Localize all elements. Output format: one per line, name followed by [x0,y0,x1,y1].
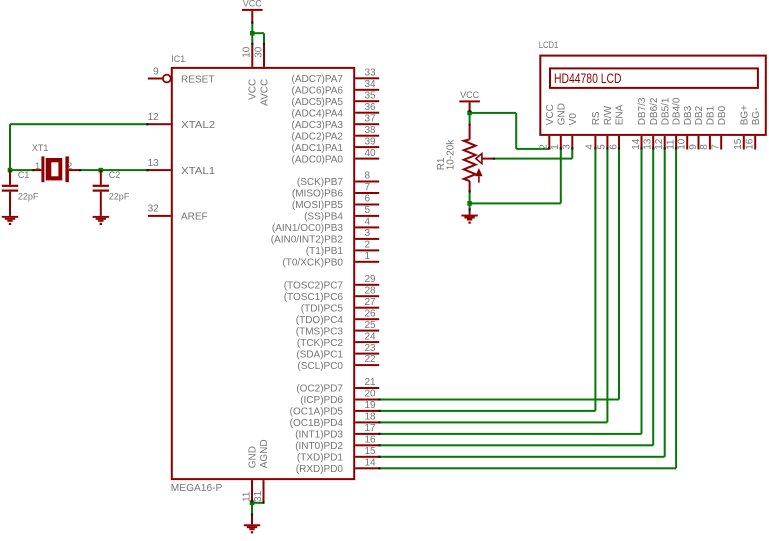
wire branch to pin30 AVCC [252,32,265,44]
wire VCC net R1 top to LCD pin2 [470,112,550,150]
svg-text:26: 26 [365,308,377,319]
svg-text:7: 7 [711,144,722,150]
LCD pin 10 DB3 [677,105,694,149]
svg-text:22pF: 22pF [18,191,39,201]
C2 label [109,170,121,180]
svg-text:(INT1)PD3: (INT1)PD3 [295,430,343,441]
svg-text:9: 9 [153,67,159,78]
LCD pin 9 DB2 [688,105,705,149]
svg-text:AGND: AGND [259,439,270,468]
svg-text:19: 19 [365,400,377,411]
svg-text:23: 23 [365,343,377,354]
svg-text:DB1: DB1 [706,105,717,125]
pin 11 GND (bottom) [241,446,258,502]
svg-text:(OC2)PD7: (OC2)PD7 [296,384,343,395]
capacitor C2 [93,170,109,216]
R1 value 10-20k [446,139,457,171]
svg-text:BG-: BG- [751,108,762,126]
svg-text:DB7/3: DB7/3 [637,97,648,125]
ground (C2) [93,216,109,225]
svg-text:30: 30 [253,46,264,58]
svg-text:12: 12 [654,138,665,150]
svg-text:4: 4 [365,217,371,228]
IC1 reference label [171,54,185,64]
svg-text:16: 16 [745,138,756,150]
C1 value 22pF [18,191,39,201]
C2 value 22pF [109,191,130,201]
svg-text:7: 7 [365,182,371,193]
svg-text:10-20k: 10-20k [446,139,457,171]
svg-text:(TXD)PD1: (TXD)PD1 [297,453,344,464]
wire PD5 to LCD RS [379,150,596,412]
svg-text:5: 5 [597,144,608,150]
svg-text:(AIN0/INT2)PB2: (AIN0/INT2)PB2 [271,235,344,246]
svg-text:C2: C2 [109,170,121,180]
LCD pin 12 DB5/1 [654,97,671,150]
svg-text:(ADC4)PA4: (ADC4)PA4 [292,108,344,119]
svg-text:8: 8 [699,144,710,150]
wire PD0 to LCD DB4/0 [379,150,677,470]
node R1 bottom junction [467,201,472,206]
wire VCC symbol to pin10 [251,11,253,44]
svg-text:9: 9 [688,144,699,150]
svg-text:27: 27 [365,297,377,308]
svg-text:10: 10 [242,46,253,58]
wire XTAL2 net: pin12 left then down [9,123,148,170]
svg-text:14: 14 [365,458,377,469]
svg-text:AREF: AREF [181,212,208,223]
svg-text:(TOSC2)PC7: (TOSC2)PC7 [284,281,344,292]
svg-text:(TDI)PC5: (TDI)PC5 [301,303,344,314]
svg-text:VCC: VCC [248,79,259,100]
pin 31 AGND (bottom) [253,439,270,502]
svg-text:(OC1A)PD5: (OC1A)PD5 [290,407,344,418]
svg-text:1: 1 [365,251,371,262]
svg-text:BG+: BG+ [739,105,750,125]
svg-text:11: 11 [665,139,676,150]
node GND junction [250,501,255,506]
svg-text:2: 2 [539,144,550,150]
svg-text:DB4/0: DB4/0 [672,97,683,125]
pins port PD (21-14) [290,377,380,475]
svg-text:18: 18 [365,412,377,423]
svg-text:13: 13 [643,138,654,150]
LCD pin 7 DB0 [711,105,728,149]
pins port PA (33-40) [292,68,380,166]
wire PD4 to LCD R/W [379,150,608,424]
svg-text:28: 28 [365,285,377,296]
svg-text:(SDA)PC1: (SDA)PC1 [296,349,343,360]
svg-text:(ICP)PD6: (ICP)PD6 [300,395,343,406]
LCD pin 3 V0 [562,113,579,150]
svg-text:2: 2 [67,161,72,171]
LCD1 reference label [539,40,559,50]
svg-text:22pF: 22pF [109,191,130,201]
svg-text:35: 35 [365,90,377,101]
svg-text:RESET: RESET [181,74,215,85]
svg-text:MEGA16-P: MEGA16-P [171,483,223,494]
pin 9 RESET (inverted) [148,67,215,86]
svg-text:15: 15 [733,138,744,150]
svg-text:4: 4 [585,144,596,150]
C1 label [18,170,30,180]
svg-text:5: 5 [365,205,371,216]
MEGA16-P value label [171,483,223,494]
svg-text:37: 37 [365,113,377,124]
svg-text:(TDO)PC4: (TDO)PC4 [296,315,344,326]
svg-text:VCC: VCC [460,90,480,100]
svg-text:(OC1B)PD4: (OC1B)PD4 [290,418,344,429]
svg-text:GND: GND [247,446,258,468]
svg-text:(ADC0)PA0: (ADC0)PA0 [292,154,344,165]
R1 label [436,157,447,170]
svg-text:(SCK)PB7: (SCK)PB7 [297,177,344,188]
svg-text:32: 32 [148,204,160,215]
LCD pin 13 DB6/2 [643,97,660,150]
svg-text:(MISO)PB6: (MISO)PB6 [292,189,344,200]
svg-text:IC1: IC1 [171,54,185,64]
crystal pin 1 number [35,161,40,171]
svg-text:(SCL)PC0: (SCL)PC0 [297,361,343,372]
wire junction to ground [469,203,471,214]
wire junction to crystal pin1 [10,169,34,171]
crystal pin 2 number [67,161,72,171]
svg-text:(TCK)PC2: (TCK)PC2 [297,338,344,349]
capacitor C1 [2,170,18,216]
svg-text:ENA: ENA [615,104,626,125]
svg-text:11: 11 [241,491,252,502]
svg-text:DB2: DB2 [694,105,705,125]
power VCC symbol (top of IC) [242,0,263,11]
XT1 label [32,143,49,153]
svg-text:3: 3 [365,228,371,239]
LCD module LCD1 body [540,56,766,135]
LCD pin 15 BG+ [733,105,750,150]
svg-text:VCC: VCC [545,104,556,125]
svg-text:AVCC: AVCC [259,79,270,106]
svg-text:XTAL2: XTAL2 [181,120,216,131]
svg-text:(INT0)PD2: (INT0)PD2 [295,441,343,452]
wire PD1 to LCD DB5/1 [379,150,666,458]
LCD pin 4 RS [585,111,602,150]
ground (R1) [461,215,477,224]
node VCC/AVCC junction [250,31,255,36]
ground (C1) [2,216,18,225]
svg-text:10: 10 [677,138,688,150]
svg-text:8: 8 [365,171,371,182]
svg-text:DB5/1: DB5/1 [660,97,671,125]
node C2 junction [99,168,104,173]
svg-text:(ADC3)PA3: (ADC3)PA3 [292,120,344,131]
svg-text:16: 16 [365,435,377,446]
svg-text:36: 36 [365,102,377,113]
LCD pin 1 GND [550,103,567,150]
svg-text:31: 31 [253,490,264,502]
LCD pin 11 DB4/0 [665,97,682,150]
svg-text:XT1: XT1 [32,143,49,153]
svg-text:34: 34 [365,79,377,90]
svg-text:1: 1 [550,144,561,150]
svg-text:21: 21 [365,377,377,388]
pin 30 AVCC (top) [253,44,270,106]
IC IC1 MEGA16-P body [172,68,354,479]
svg-text:38: 38 [365,125,377,136]
svg-text:22: 22 [365,354,377,365]
pin 10 VCC (top) [242,44,259,100]
pin 32 AREF [148,204,208,223]
svg-text:2: 2 [365,240,371,251]
trimmer R1 [464,125,494,192]
svg-text:(TOSC1)PC6: (TOSC1)PC6 [284,292,344,303]
wire R1 bottom to junction [469,191,471,203]
wire VCC bar to R1 top [469,102,471,124]
node C1/crystal junction [8,168,13,173]
wire V0 net R1 wiper to LCD pin3 [494,149,573,160]
svg-text:LCD1: LCD1 [539,40,559,50]
svg-text:(ADC5)PA5: (ADC5)PA5 [292,97,344,108]
svg-text:40: 40 [365,148,377,159]
svg-text:(ADC1)PA1: (ADC1)PA1 [292,143,344,154]
svg-text:29: 29 [365,274,377,285]
svg-text:(T0/XCK)PB0: (T0/XCK)PB0 [282,258,343,269]
svg-text:12: 12 [148,112,160,123]
svg-text:(ADC7)PA7: (ADC7)PA7 [292,74,344,85]
svg-text:14: 14 [631,138,642,150]
crystal XT1 [34,156,81,182]
svg-text:V0: V0 [568,113,579,126]
svg-text:13: 13 [148,158,160,169]
svg-text:(ADC6)PA6: (ADC6)PA6 [292,86,344,97]
svg-text:24: 24 [365,331,377,342]
svg-text:XTAL1: XTAL1 [181,166,216,177]
wire crystal pin2 to C2 junction to pin13 XTAL1 [80,169,148,171]
svg-text:(AIN1/OC0)PB3: (AIN1/OC0)PB3 [272,223,344,234]
svg-text:(SS)PB4: (SS)PB4 [304,212,343,223]
svg-text:15: 15 [365,446,377,457]
svg-text:(MOSI)PB5: (MOSI)PB5 [292,200,344,211]
svg-text:DB6/2: DB6/2 [649,97,660,125]
wire GND net LCD pin1 to R1 bottom [470,150,562,205]
svg-text:DB0: DB0 [717,105,728,125]
svg-text:(TMS)PC3: (TMS)PC3 [296,326,344,337]
svg-text:17: 17 [365,423,377,434]
svg-text:3: 3 [562,144,573,150]
svg-text:VCC: VCC [243,0,263,8]
svg-text:20: 20 [365,389,377,400]
pins port PB (8-1) [271,171,379,269]
svg-text:(ADC2)PA2: (ADC2)PA2 [292,131,344,142]
LCD pin 16 BG- [745,108,762,150]
wire pin11/pin31 to ground [251,502,264,525]
svg-text:25: 25 [365,320,377,331]
LCD pin 2 VCC [539,104,556,150]
svg-text:HD44780 LCD: HD44780 LCD [554,71,622,86]
svg-text:DB3: DB3 [683,105,694,125]
svg-text:1: 1 [35,161,40,171]
svg-text:RS: RS [591,111,602,125]
pin 12 XTAL2 [148,112,216,131]
svg-text:(T1)PB1: (T1)PB1 [306,246,344,257]
svg-text:C1: C1 [18,170,30,180]
svg-text:39: 39 [365,136,377,147]
LCD pin 14 DB7/3 [631,97,648,150]
wire PD3 to LCD DB7/3 [379,150,642,435]
svg-text:6: 6 [365,194,371,205]
LCD pin 6 ENA [608,104,625,149]
wire PD6 to LCD ENA [379,150,620,401]
pin 13 XTAL1 [148,158,216,177]
svg-text:GND: GND [556,103,567,125]
pins port PC (29-22) [284,274,379,372]
svg-text:6: 6 [608,144,619,150]
ground (IC) [244,524,260,533]
node R1 top junction [467,111,472,116]
svg-text:33: 33 [365,68,377,79]
HD44780 LCD value label [554,71,622,86]
LCD pin 8 DB1 [699,105,716,149]
svg-text:R/W: R/W [603,105,614,125]
svg-text:(RXD)PD0: (RXD)PD0 [296,464,344,475]
LCD pin 5 R/W [597,105,614,150]
wire PD2 to LCD DB6/2 [379,150,654,447]
power VCC symbol (R1) [459,90,480,103]
